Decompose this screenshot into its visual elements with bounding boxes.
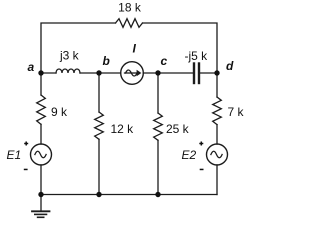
node d bbox=[214, 70, 219, 75]
label 12 k bbox=[111, 122, 135, 136]
svg-text:E2: E2 bbox=[182, 148, 197, 162]
label -j5 k bbox=[185, 49, 209, 63]
svg-text:25 k: 25 k bbox=[166, 122, 190, 136]
label node d bbox=[226, 59, 234, 73]
wire a down bbox=[40, 73, 42, 95]
svg-text:E1: E1 bbox=[7, 148, 22, 162]
wire top left segment bbox=[41, 23, 116, 73]
junction bottom left bbox=[38, 192, 43, 197]
label node b bbox=[103, 54, 110, 68]
wire 25k to bottom bbox=[157, 140, 159, 194]
junction bottom c bbox=[155, 192, 160, 197]
wire capacitor to d bbox=[200, 72, 217, 74]
svg-text:9 k: 9 k bbox=[51, 105, 68, 119]
label node c bbox=[161, 54, 168, 68]
svg-text:c: c bbox=[161, 54, 168, 68]
wire b down bbox=[98, 73, 100, 112]
wire c down bbox=[157, 73, 159, 113]
voltage source E2 bbox=[207, 144, 228, 165]
wire a to inductor bbox=[41, 72, 56, 74]
ground bbox=[32, 195, 50, 218]
polarity - of E1 bbox=[24, 169, 28, 171]
voltage source E1 bbox=[31, 144, 52, 165]
capacitor -j5 k bbox=[194, 64, 199, 84]
wire 12k to bottom bbox=[98, 139, 100, 194]
resistor 7 k bbox=[213, 97, 222, 125]
svg-text:d: d bbox=[226, 59, 234, 73]
wire bottom bbox=[41, 194, 217, 196]
label E2 bbox=[182, 148, 197, 162]
node b bbox=[96, 70, 101, 75]
polarity + of E2 bbox=[199, 142, 203, 146]
polarity - of E2 bbox=[200, 169, 204, 171]
wire E2 to bottom bbox=[216, 165, 218, 195]
svg-text:12 k: 12 k bbox=[111, 122, 135, 136]
wire top right segment bbox=[143, 23, 218, 73]
resistor 12 k bbox=[95, 112, 104, 139]
wire 9k to E1 bbox=[40, 124, 42, 144]
label j3 k bbox=[59, 49, 80, 63]
wire E1 to bottom bbox=[40, 165, 42, 195]
node c bbox=[155, 70, 160, 75]
label 7 k bbox=[228, 105, 245, 119]
label E1 bbox=[7, 148, 22, 162]
polarity + of E1 bbox=[24, 142, 28, 146]
svg-text:b: b bbox=[103, 54, 110, 68]
svg-text:18 k: 18 k bbox=[118, 1, 142, 15]
svg-text:7 k: 7 k bbox=[228, 105, 245, 119]
inductor j3 k bbox=[56, 69, 80, 73]
svg-text:-j5 k: -j5 k bbox=[185, 49, 209, 63]
node a bbox=[38, 70, 43, 75]
label 9 k bbox=[51, 105, 68, 119]
wire 7k to E2 bbox=[216, 125, 218, 144]
label node a bbox=[28, 60, 35, 74]
wire current source to c bbox=[143, 72, 193, 74]
junction bottom b bbox=[96, 192, 101, 197]
label 18 k bbox=[118, 1, 142, 15]
svg-text:j3 k: j3 k bbox=[59, 49, 80, 63]
resistor 18 k bbox=[116, 19, 143, 28]
resistor 9 k bbox=[37, 95, 46, 124]
svg-text:a: a bbox=[28, 60, 35, 74]
label 25 k bbox=[166, 122, 190, 136]
wire d down bbox=[216, 73, 218, 97]
wire inductor to b bbox=[80, 72, 121, 74]
current source I bbox=[121, 62, 144, 85]
label I bbox=[133, 42, 137, 56]
resistor 25 k bbox=[154, 113, 163, 140]
